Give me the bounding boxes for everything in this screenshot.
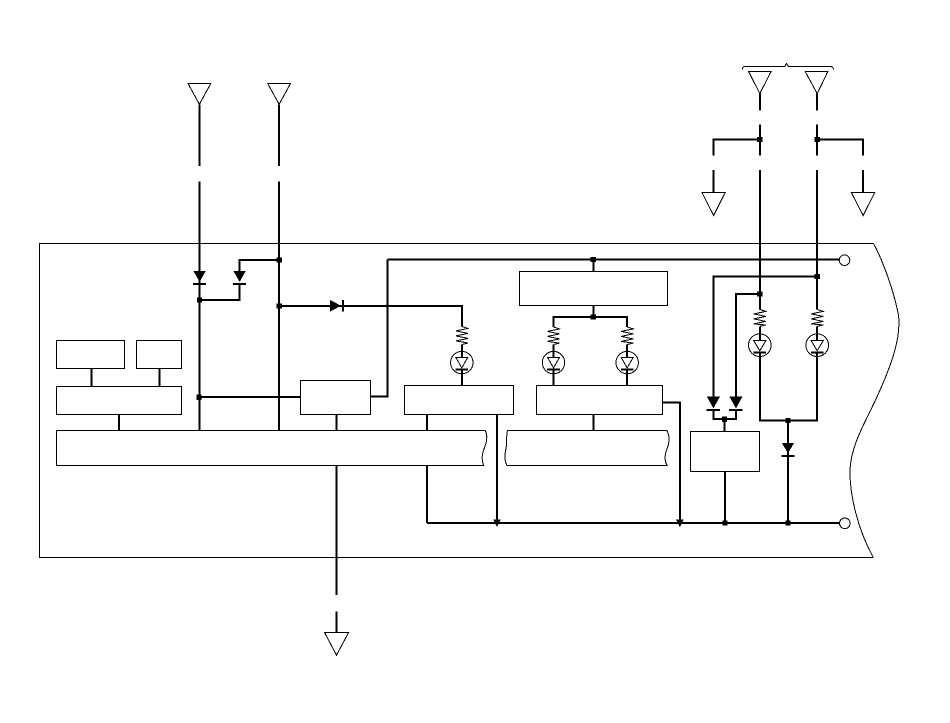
brace over ANT3 and ANT4 — [742, 64, 833, 70]
resistor R4 — [754, 310, 766, 327]
arrow into bottom rail from block G — [676, 520, 684, 528]
wire from ANT4 segment a — [816, 94, 818, 111]
wire from ANT2 upper segment — [278, 104, 280, 166]
wire block G right side down to bottom rail — [663, 402, 680, 521]
wire node A to diode D2 anode — [200, 284, 240, 300]
node G on ANT4 wire — [815, 274, 820, 279]
node J — [785, 418, 790, 423]
diode D3 — [330, 300, 341, 312]
arrow into bottom rail from block D — [493, 520, 501, 528]
node K on bottom rail — [722, 520, 727, 525]
bus1 with torn right edge — [57, 431, 487, 466]
branch wire node G to diode D4 — [713, 276, 817, 396]
wire block C to bus1 — [118, 415, 120, 432]
wire from ANT3 segment b — [759, 125, 761, 156]
wire node D to block OSC — [199, 396, 301, 398]
antenna ANT1 — [188, 84, 211, 105]
wire D2 top to node B — [240, 260, 280, 271]
wire from ANT1 upper segment — [199, 104, 201, 166]
diode D6 — [782, 443, 794, 453]
wire block OSC right side up to top rail — [371, 260, 388, 397]
top rail wire to terminal T1 — [388, 259, 840, 261]
node on ANT4 wire — [815, 137, 820, 142]
node D on ANT1 wire — [196, 395, 201, 400]
wire block D right leg to bottom rail with arrow — [496, 415, 498, 522]
wire block H to bottom rail — [724, 472, 726, 523]
terminal T1 — [839, 255, 850, 266]
block C — [57, 387, 182, 415]
current source CS5 — [806, 326, 829, 356]
wire block OSC to bus1 — [336, 415, 338, 432]
wire block G to bus2 — [593, 415, 595, 432]
block G — [537, 386, 663, 415]
wire block A to block C — [91, 369, 93, 387]
ground antenna symbol bottom — [325, 633, 349, 656]
node E on top rail — [591, 257, 596, 262]
current source CS1 — [451, 345, 473, 386]
antenna ANT4 — [805, 72, 828, 94]
wire node C to resistor R1 via diode D3 — [279, 306, 462, 327]
wire block F bottom to node F — [592, 306, 594, 317]
wire from ANT2 lower segment into box down to bus — [278, 182, 280, 431]
node I — [722, 417, 727, 422]
node A — [197, 297, 202, 302]
node H on ANT3 wire — [757, 291, 762, 296]
wire node F branches to R2 and R3 — [554, 317, 628, 327]
wire from ANT1 lower segment into box down to bus — [199, 182, 201, 431]
node C on ANT2 wire — [277, 303, 282, 308]
wire node E down to block F — [592, 260, 594, 272]
diode D4 — [707, 397, 720, 409]
block OSC (E) — [301, 381, 371, 415]
wire from ANT4 segment c into box down to resistor — [816, 170, 818, 310]
current source CS4 — [749, 326, 772, 356]
block F (top) — [520, 272, 668, 306]
wire D1 cathode to node A — [199, 284, 201, 300]
resistor R3 — [621, 327, 633, 345]
diode D1 on ANT1 wire — [194, 271, 206, 282]
bottom rail wire — [427, 522, 840, 524]
wire CS4 and CS5 join at node J — [760, 353, 817, 421]
branch wire to right ground arrow — [817, 140, 863, 193]
block H — [691, 432, 760, 472]
branch wire node H to diode D5 — [736, 294, 760, 397]
bus2 with torn edges — [505, 431, 669, 466]
wire from ANT4 segment b — [816, 125, 818, 156]
ground arrow right — [851, 193, 874, 216]
node F — [591, 314, 596, 319]
branch wire to left ground arrow — [713, 140, 759, 193]
node L on bottom rail — [785, 520, 790, 525]
node on ANT3 wire — [757, 137, 762, 142]
wire block D left leg to bottom rail — [426, 415, 428, 523]
block D — [405, 386, 514, 415]
wire from ANT3 segment c into box down to resistor — [759, 170, 761, 310]
ground arrow left — [702, 193, 725, 216]
resistor R1 — [456, 327, 468, 345]
resistor R5 — [811, 310, 823, 327]
diode D5 — [729, 397, 742, 409]
wire from ANT3 segment a — [759, 94, 761, 111]
current source CS3 — [616, 345, 638, 386]
antenna ANT3 — [749, 72, 772, 94]
ground lead from bus1 — [336, 466, 338, 633]
block A — [57, 341, 125, 369]
node B on ANT2 wire — [277, 258, 282, 263]
wire block B to block C — [158, 369, 160, 387]
terminal T2 — [840, 518, 851, 529]
antenna ANT2 — [268, 84, 291, 105]
current source CS2 — [542, 345, 564, 386]
diode D2 — [234, 271, 246, 282]
wire node J through diode D6 to bottom rail — [787, 421, 789, 523]
resistor R2 — [548, 327, 560, 345]
outer IC boundary box with torn right edge — [40, 244, 899, 558]
wire diode cathodes join to block H — [713, 410, 736, 432]
block B — [137, 341, 182, 369]
